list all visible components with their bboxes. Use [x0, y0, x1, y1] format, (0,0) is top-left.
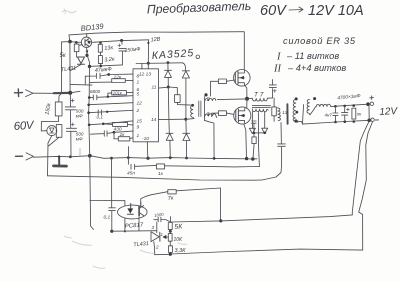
- node D1 bottom: [167, 86, 170, 89]
- zener VD2 glyph: [50, 128, 55, 133]
- svg-text:9: 9: [137, 125, 140, 131]
- wire GDT bottom to rail: [204, 120, 214, 158]
- svg-text:4н7: 4н7: [325, 113, 333, 118]
- svg-text:-10: -10: [142, 136, 149, 142]
- resistor beside zener: [56, 125, 62, 138]
- inductor W3 dot: [313, 97, 316, 100]
- wire Q2 source down: [244, 85, 247, 99]
- svg-text:3,2к: 3,2к: [104, 56, 115, 63]
- core bar bold: [286, 104, 288, 124]
- wire GDT left col: [203, 97, 205, 121]
- wire opto anode pin: [124, 201, 126, 206]
- node pin14 x186: [184, 118, 187, 121]
- transformer GDT secondary W2: [205, 98, 216, 100]
- resistor 430: [113, 122, 128, 126]
- inductor W2 dots: [295, 97, 298, 100]
- svg-text:11: 11: [152, 85, 157, 91]
- node divider bottom: [169, 253, 172, 256]
- node 1K left: [113, 131, 116, 134]
- wire D2 down long: [185, 78, 187, 119]
- diode D2 at IC right: [182, 63, 189, 78]
- wire D4 to rail: [186, 141, 188, 159]
- svg-text:8: 8: [137, 74, 140, 80]
- node col x89 a: [88, 96, 91, 99]
- wire to pin 8: [109, 73, 133, 75]
- transistor Q1 BD139 circle: [81, 37, 91, 47]
- wire Q3 source to rail: [244, 124, 247, 158]
- node fb corner: [219, 219, 222, 222]
- optocoupler transistor glyph: [138, 207, 140, 216]
- wire minus rail: [34, 156, 258, 159]
- resistor below diodes: [252, 137, 256, 144]
- TL431 ref arrow: [162, 235, 166, 239]
- wire GDT primary bottom: [186, 118, 194, 121]
- zener VD1: [78, 57, 85, 64]
- wire D1 down: [167, 77, 169, 87]
- wire left edge down: [61, 42, 63, 93]
- svg-text:14: 14: [151, 117, 157, 123]
- capacitor 500uF #1: [65, 93, 75, 122]
- wire 47uF left drop: [84, 76, 86, 84]
- node divider a: [169, 230, 172, 233]
- input arrow -: [26, 153, 34, 160]
- wire TL431 col down to + node: [69, 42, 71, 93]
- wire 5K col: [75, 42, 77, 57]
- transformer GDT primary winding: [191, 106, 194, 119]
- inductor L output: [316, 104, 332, 107]
- wire opto cathode pin down: [124, 218, 126, 231]
- wire gate R2 left: [212, 113, 219, 117]
- wire pin5 row: [108, 96, 133, 97]
- wire gate R2 right: [226, 113, 234, 114]
- wire zener to + node: [71, 65, 81, 71]
- wire pin2 row: [89, 110, 133, 112]
- capacitor 150uF: [119, 41, 126, 65]
- wire TL431 cathode: [156, 222, 158, 233]
- wire Q1 collector: [86, 33, 88, 37]
- resistor 1K: [118, 137, 130, 141]
- svg-text:1к: 1к: [120, 132, 126, 138]
- resistor 5K (reg): [74, 44, 79, 52]
- transformer T7 core: [252, 106, 270, 108]
- optocoupler LED glyph: [127, 208, 133, 213]
- op-amp U1 KA3525 box: [133, 69, 159, 142]
- wire D1 col to lower diode: [168, 87, 169, 133]
- wire D2 col to lower diode: [185, 119, 187, 133]
- node col x89 b: [87, 104, 90, 107]
- wire snubber R leads: [273, 98, 275, 121]
- svg-text:101к: 101к: [113, 90, 123, 95]
- svg-text:силовой ER 35: силовой ER 35: [283, 36, 356, 46]
- wire Q1 emitter with arrow: [85, 47, 88, 56]
- svg-text:Т 7: Т 7: [254, 92, 264, 99]
- wire corner down: [220, 188, 222, 221]
- wire long zener net y176: [48, 176, 263, 180]
- transformer GDT core: [199, 101, 201, 117]
- capacitor out C2 electrolytic: [342, 106, 348, 122]
- input arrow +: [26, 90, 34, 97]
- resistor 3.2K: [98, 56, 102, 64]
- wire 12V branch left part: [62, 41, 96, 44]
- svg-text:12 13: 12 13: [139, 72, 151, 78]
- svg-text:60V: 60V: [260, 3, 287, 19]
- svg-text:2: 2: [155, 245, 159, 251]
- wire branch to cap: [262, 147, 282, 180]
- wire 12V down to IC: [147, 40, 149, 63]
- wire 5K-10K: [169, 230, 171, 234]
- transistor Q2 mosfet circle: [234, 70, 251, 87]
- svg-text:12к: 12к: [114, 74, 122, 80]
- wire drain drop to Q1: [243, 32, 246, 70]
- wire fb diag from +12: [352, 106, 369, 215]
- node dots on 12V branch: [68, 40, 102, 44]
- node emitter66: [88, 65, 91, 68]
- capacitor 0.1 pin2: [98, 110, 101, 115]
- svg-text:12: 12: [137, 101, 143, 107]
- wire 101K leads: [108, 92, 133, 96]
- svg-text:60V: 60V: [13, 120, 35, 133]
- ground: [58, 157, 60, 165]
- wire 150K top: [59, 93, 62, 102]
- wire IC top feed: [136, 62, 182, 65]
- capacitor 6800: [90, 95, 108, 100]
- wire fb long to 5K node: [170, 221, 220, 222]
- wire emitter to node66: [87, 55, 89, 66]
- wire diode junction: [252, 132, 266, 134]
- wire 430 leads: [103, 124, 133, 125]
- wire fb2 corner join: [359, 212, 363, 250]
- node D6 junction: [263, 132, 266, 135]
- transformer GDT secondary W3: [205, 114, 217, 118]
- transistor Q3 internals: [236, 109, 239, 122]
- node opto cathode: [124, 230, 126, 232]
- wire input + to node: [33, 92, 54, 94]
- wire stub x128: [127, 147, 129, 159]
- wire output left col: [303, 105, 304, 124]
- diode D6: [262, 128, 268, 133]
- wire opto collector up to 7K: [141, 192, 168, 206]
- svg-text:2: 2: [136, 108, 140, 114]
- wire T7 center tap down: [258, 113, 259, 167]
- wire opto emitter down: [138, 217, 140, 231]
- capacitor 47uF: [85, 73, 108, 78]
- transistor Q1 internals: [85, 39, 89, 46]
- svg-text:мФ: мФ: [76, 114, 83, 119]
- wire pin15 row: [90, 121, 133, 125]
- capacitor 0.1 opto: [109, 158, 116, 231]
- svg-text:45п: 45п: [127, 171, 135, 177]
- wire 13K-3.2K link: [99, 52, 101, 66]
- svg-text:12V 10A: 12V 10A: [308, 3, 364, 19]
- resistor gate R2: [218, 111, 226, 116]
- wire emitter to cap bottom: [91, 65, 122, 66]
- svg-text:0,1: 0,1: [104, 215, 111, 221]
- resistor drive R: [175, 95, 181, 103]
- wire T7 sec right down: [264, 112, 266, 128]
- wire stubs into IC top: [142, 63, 148, 69]
- svg-text:2: 2: [206, 97, 210, 103]
- svg-text:10К: 10К: [174, 237, 184, 243]
- KA3525 flourish: [196, 55, 200, 59]
- resistor snubber T7: [272, 107, 277, 116]
- wire zener down to long wire: [48, 136, 52, 176]
- capacitor 0.1b: [91, 131, 115, 136]
- wire output bottom: [303, 120, 370, 124]
- node dots on minus rail: [58, 154, 255, 161]
- resistor 13K: [98, 44, 102, 52]
- node 150uF top: [120, 39, 123, 42]
- wire 1K fb right: [165, 166, 260, 167]
- capacitor 45n: [128, 158, 136, 169]
- node IC vcc: [147, 62, 150, 65]
- node corner 12v: [147, 42, 149, 44]
- capacitor at T7 +: [269, 85, 276, 88]
- node input + junction: [68, 91, 72, 95]
- svg-text:– 11 витков: – 11 витков: [286, 51, 339, 61]
- optocoupler U2 PC817 ellipse: [118, 205, 148, 219]
- terminal + output: [370, 102, 373, 105]
- input terminal +: [15, 89, 23, 97]
- wire fb long right: [221, 215, 352, 221]
- node col x89 c: [87, 111, 90, 114]
- wire output top: [332, 104, 368, 106]
- capacitor 500uF #2: [66, 121, 76, 157]
- svg-text:5К: 5К: [174, 223, 183, 231]
- svg-text:5: 5: [137, 92, 140, 98]
- svg-text:1: 1: [137, 80, 140, 86]
- wire ref to divider: [166, 236, 168, 238]
- GDT W2 polarity dot: [204, 93, 207, 96]
- svg-text:3,3К: 3,3К: [175, 248, 187, 254]
- wire T7 primary right up: [272, 80, 274, 98]
- node 3.2K bottom: [100, 65, 103, 68]
- wire gate R1 right: [226, 80, 234, 81]
- svg-text:15: 15: [137, 119, 143, 125]
- faint stray line near caps: [79, 149, 81, 157]
- wire gate R1 left: [211, 81, 219, 96]
- node emitter junction: [85, 54, 88, 57]
- wire pin14: [159, 118, 186, 120]
- faint smudge bottom mid: [140, 243, 187, 253]
- svg-text:12V: 12V: [379, 106, 399, 118]
- wire diode junction to rail: [253, 133, 254, 159]
- wire TL431 anode: [154, 242, 171, 255]
- capacitor snubber bottom: [278, 123, 286, 147]
- terminal - output: [371, 118, 374, 121]
- diode D3: [166, 133, 173, 140]
- wire drive R top: [168, 87, 177, 95]
- input terminal -: [16, 155, 23, 157]
- wire corner into 12V branch: [68, 35, 71, 42]
- wire fb2 diag from -12: [359, 122, 373, 213]
- wire opto anode net y200: [90, 200, 125, 202]
- wire 5K top stub: [169, 217, 171, 222]
- svg-text:0,1: 0,1: [97, 115, 104, 120]
- wire 12V branch y40: [95, 40, 149, 42]
- wire 10K-3.3K: [169, 241, 171, 246]
- wire 7K to corner: [176, 188, 220, 191]
- resistor 1K fb: [157, 164, 165, 169]
- resistor 3.3K divider: [169, 246, 173, 253]
- node col x89 d: [88, 124, 91, 127]
- wire pin10 down: [146, 142, 149, 159]
- wire opto bottom to TL431: [112, 230, 157, 233]
- svg-text:1: 1: [137, 133, 140, 139]
- capacitor snubber C: [252, 121, 257, 133]
- wire drive R bottom to winding: [177, 102, 191, 105]
- wire T7 sec left down: [251, 112, 253, 129]
- faint smudge bottom left: [93, 266, 105, 268]
- wire 13K top: [99, 43, 101, 45]
- inductor out W3: [307, 99, 310, 115]
- wire Q1 base stub: [79, 44, 82, 47]
- wire W3 to inductor L: [310, 107, 316, 115]
- TL431 U3: [151, 232, 159, 242]
- node pin8 wire: [107, 73, 110, 76]
- node pin2: [106, 111, 108, 113]
- wire rect bottom join: [49, 137, 60, 146]
- wire W2 bottom step: [296, 121, 303, 124]
- inductor out W2: [293, 99, 298, 122]
- resistor 150K: [55, 102, 62, 116]
- resistor 5K divider: [168, 223, 172, 230]
- resistor gate R1: [218, 79, 226, 84]
- node D5 junction: [253, 132, 256, 135]
- resistor 7K: [168, 190, 176, 194]
- wire pin11: [159, 86, 169, 89]
- svg-text:II: II: [273, 64, 281, 75]
- wire pin1b row: [114, 131, 133, 132]
- diode D5: [249, 128, 255, 133]
- node 101K left: [107, 96, 109, 98]
- wire pin12 row: [89, 103, 133, 105]
- zener VD2 circle: [47, 126, 57, 136]
- transistor Q3 mosfet circle: [234, 107, 251, 124]
- wire emitter aux y85: [71, 83, 92, 86]
- svg-text:7к: 7к: [168, 195, 175, 202]
- svg-text:3: 3: [207, 112, 210, 118]
- svg-text:3: 3: [152, 225, 155, 231]
- transformer T7 primary winding: [252, 98, 272, 101]
- resistor 12K: [112, 79, 126, 83]
- wire fb2 bottom long: [171, 249, 363, 254]
- svg-text:12В: 12В: [150, 36, 161, 43]
- wire left column x89: [89, 67, 94, 230]
- node out dots top: [334, 105, 337, 108]
- node winding top: [191, 104, 194, 107]
- resistor 101K: [112, 91, 127, 95]
- transistor Q2 internals: [235, 72, 238, 85]
- faint smudge top left: [62, 9, 76, 14]
- transformer T7 secondary: [252, 109, 268, 112]
- wire 150K bottom L: [41, 116, 58, 131]
- node diode feed: [167, 61, 170, 64]
- diode D4: [183, 133, 190, 140]
- wire top rail +60V: [69, 32, 244, 35]
- node 430 left: [102, 123, 105, 126]
- wire pin1 row: [90, 80, 133, 82]
- node opto bottom junction: [110, 230, 113, 233]
- wire 1K leads: [114, 133, 133, 139]
- wire junction down to Q3: [246, 99, 248, 108]
- wire junction left to W2: [217, 98, 247, 101]
- diode D1 at IC right: [165, 63, 172, 78]
- wire 45n to 1K: [136, 164, 157, 167]
- wire D3 to rail: [169, 140, 171, 158]
- capacitor out C1: [333, 106, 338, 122]
- capacitor 1000: [154, 217, 170, 222]
- node W2 bottom: [294, 119, 297, 122]
- node out dots bottom: [334, 121, 337, 124]
- transformer T7 primary wire: [249, 97, 252, 99]
- resistor out R: [352, 108, 356, 119]
- svg-text:– 4+4 витков: – 4+4 витков: [287, 63, 346, 73]
- inductor out W1: [278, 108, 281, 121]
- node Q2 source junction: [245, 97, 249, 101]
- svg-text:6800: 6800: [90, 89, 101, 94]
- resistor 10K divider: [168, 234, 172, 242]
- svg-text:мФ: мФ: [76, 137, 83, 142]
- svg-text:13к: 13к: [104, 45, 114, 52]
- svg-text:1к: 1к: [158, 171, 164, 177]
- svg-text:I: I: [276, 52, 281, 63]
